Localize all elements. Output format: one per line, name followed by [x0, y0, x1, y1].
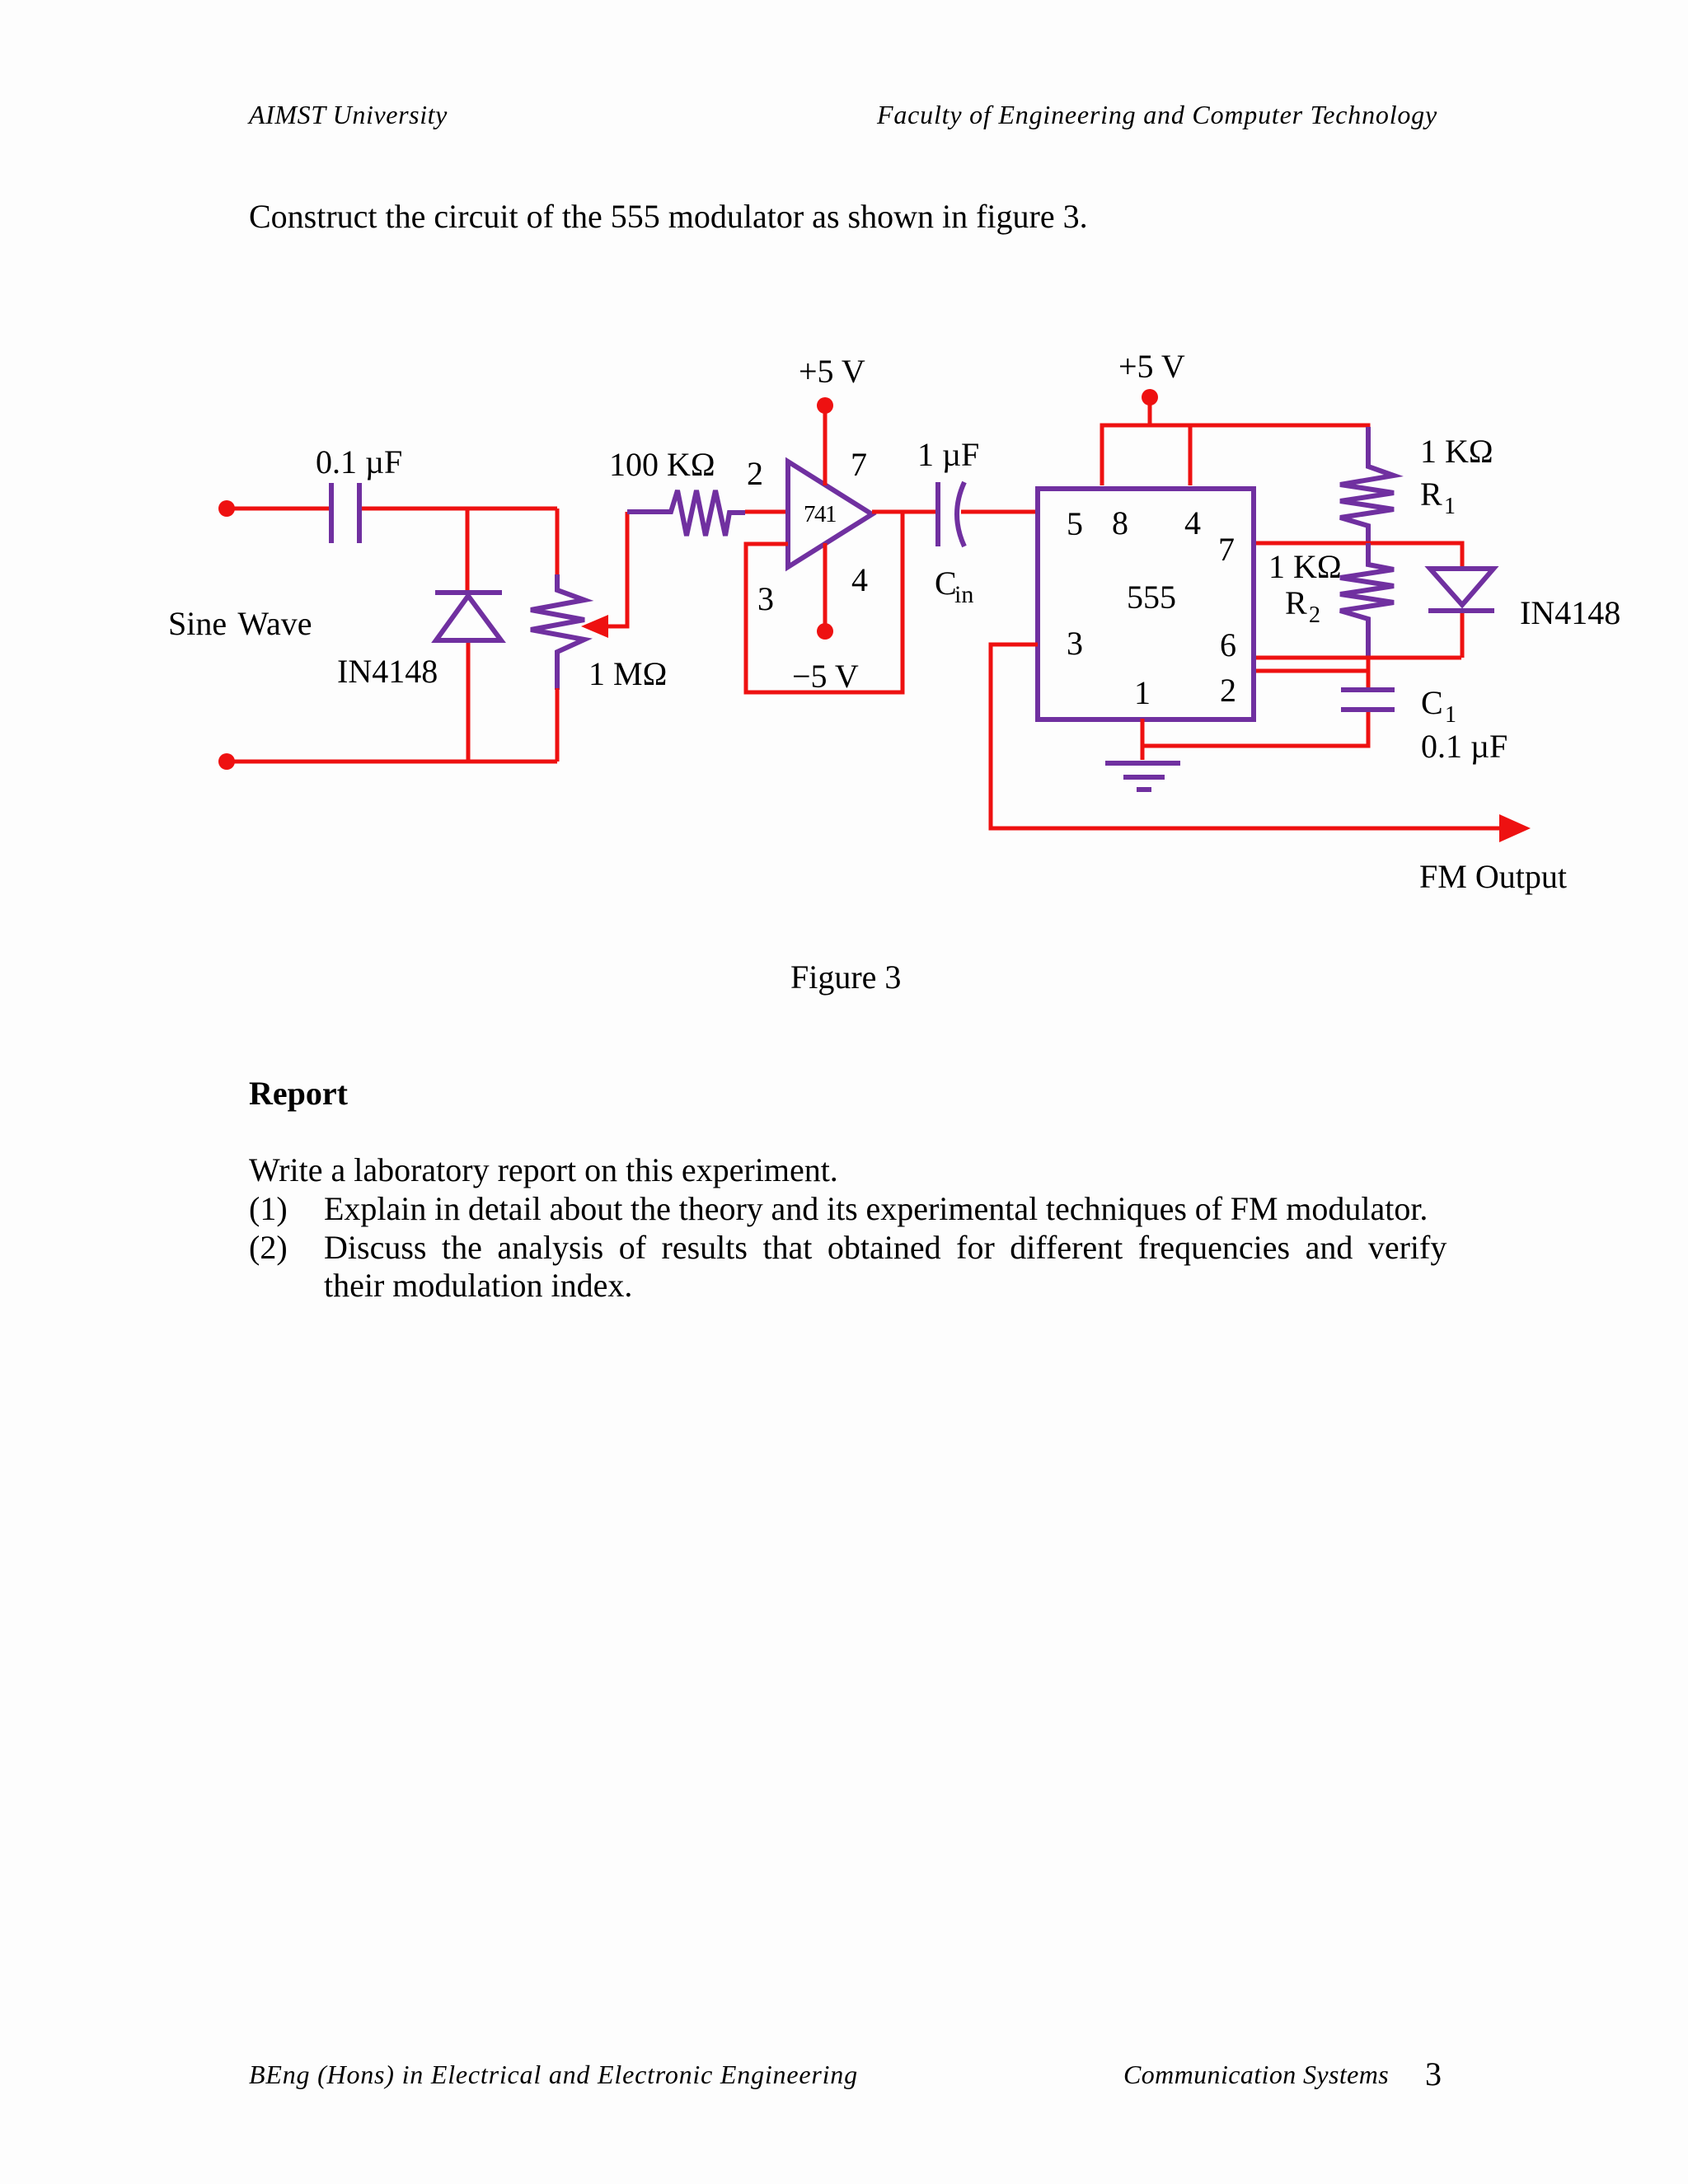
wire: -5V stem (op-amp pin 4)	[823, 543, 828, 631]
node: sine-wave + input terminal	[218, 500, 235, 517]
svg-text:1: 1	[1444, 494, 1456, 519]
svg-text:their modulation index.: their modulation index.	[324, 1267, 632, 1304]
svg-text:Discuss the analysis of result: Discuss the analysis of results that obt…	[324, 1229, 1447, 1266]
svg-text:3: 3	[1425, 2055, 1442, 2093]
svg-text:in: in	[954, 581, 973, 608]
wire: bottom rail	[227, 760, 557, 764]
wire: R3 bottom to rail	[556, 688, 560, 762]
wire: +5V stem (op-amp pin 7)	[823, 405, 828, 485]
svg-text:IN4148: IN4148	[337, 653, 438, 690]
wire: +5V stem 555	[1148, 397, 1152, 425]
ground symbol	[1105, 763, 1180, 790]
svg-text:741: 741	[804, 501, 836, 527]
wire: 555 pin 7 to diode D2	[1256, 543, 1462, 566]
svg-text:100 KΩ: 100 KΩ	[609, 446, 715, 483]
svg-text:5: 5	[1067, 505, 1083, 542]
svg-text:1 KΩ: 1 KΩ	[1268, 548, 1342, 585]
node: +5V supply dot	[817, 397, 833, 414]
svg-text:4: 4	[1184, 504, 1201, 541]
svg-text:C: C	[935, 565, 957, 602]
svg-text:Communication Systems: Communication Systems	[1123, 2060, 1389, 2089]
wire: junction down to C1	[1367, 658, 1371, 687]
wire: junction down to R3 top	[556, 509, 560, 576]
wire: Cin to 555 pin 5	[961, 510, 1038, 514]
resistor 100 Kohm	[627, 490, 745, 536]
FM output arrowhead	[1499, 814, 1531, 842]
wire: feedback loop pin3-output	[746, 512, 903, 692]
svg-text:7: 7	[1218, 531, 1235, 568]
svg-text:0.1 µF: 0.1 µF	[1421, 728, 1507, 765]
node: +5V supply dot (555)	[1142, 389, 1158, 405]
wire: second drop to 555 pin 4	[1189, 425, 1193, 485]
wiper arrow into 1 Mohm	[607, 512, 627, 626]
svg-text:+5 V: +5 V	[1118, 348, 1185, 385]
diode D2 IN4148	[1428, 569, 1494, 611]
resistor R1 1 Kohm	[1340, 427, 1394, 543]
svg-text:3: 3	[1067, 625, 1083, 662]
svg-text:Figure 3: Figure 3	[790, 958, 901, 996]
capacitor 0.1 uF input coupling	[331, 483, 359, 543]
wire: D2 cathode down to pin 6 line	[1461, 613, 1465, 658]
wire: 555 pin 2 line	[1256, 669, 1368, 673]
resistor R2 1 Kohm	[1340, 543, 1394, 658]
svg-text:Faculty of Engineering and Com: Faculty of Engineering and Computer Tech…	[876, 100, 1437, 129]
svg-text:Report: Report	[249, 1075, 349, 1112]
wire: top input lead	[227, 507, 329, 511]
svg-text:+5 V: +5 V	[799, 353, 865, 390]
svg-text:(1): (1)	[249, 1190, 288, 1227]
svg-text:2: 2	[747, 455, 763, 492]
svg-text:1: 1	[1134, 674, 1151, 711]
svg-text:Construct the circuit of the 5: Construct the circuit of the 555 modulat…	[249, 198, 1088, 235]
wire: op-amp output	[872, 510, 936, 514]
wire: 555 pin 6 line	[1256, 656, 1461, 660]
svg-text:FM Output: FM Output	[1419, 858, 1567, 895]
wire: down to diode D1	[466, 509, 470, 591]
svg-text:0.1 µF: 0.1 µF	[316, 443, 402, 480]
wire: D1 anode to bottom rail	[467, 643, 471, 762]
svg-text:IN4148: IN4148	[1520, 594, 1620, 631]
svg-text:Sine Wave: Sine Wave	[168, 605, 312, 642]
capacitor Cin 1 uF	[938, 482, 964, 546]
svg-text:(2): (2)	[249, 1229, 288, 1266]
wire: 555 pin 3 to FM output	[991, 644, 1500, 828]
svg-text:555: 555	[1127, 579, 1176, 616]
node: -5V supply dot	[817, 623, 833, 640]
svg-text:8: 8	[1112, 504, 1128, 541]
svg-text:4: 4	[851, 561, 868, 598]
svg-text:1 KΩ: 1 KΩ	[1420, 433, 1493, 470]
svg-text:R: R	[1420, 476, 1442, 513]
wire: pin 2 into op-amp	[745, 510, 788, 514]
555 timer U2	[1038, 489, 1254, 719]
svg-text:Explain in detail about the th: Explain in detail about the theory and i…	[324, 1190, 1428, 1227]
op-amp U1 741	[788, 462, 872, 567]
svg-text:Write a laboratory report on t: Write a laboratory report on this experi…	[249, 1151, 838, 1188]
svg-text:R: R	[1285, 584, 1307, 621]
svg-text:1 MΩ: 1 MΩ	[588, 655, 667, 692]
capacitor C1 0.1 uF	[1341, 690, 1395, 710]
svg-text:BEng (Hons) in Electrical and: BEng (Hons) in Electrical and Electronic…	[249, 2060, 858, 2089]
svg-text:2: 2	[1220, 672, 1236, 709]
resistor 1 Mohm potentiometer body	[531, 574, 584, 690]
svg-text:1 µF: 1 µF	[917, 436, 979, 473]
node: sine-wave - input terminal	[218, 753, 235, 770]
diode D1 IN4148	[435, 593, 502, 640]
svg-text:1: 1	[1445, 702, 1456, 728]
svg-text:7: 7	[851, 446, 867, 483]
svg-text:AIMST University: AIMST University	[247, 100, 448, 129]
svg-text:2: 2	[1309, 602, 1320, 628]
wire: cap to junction	[362, 507, 557, 511]
wire: C1 bottom to ground line	[1142, 712, 1368, 746]
wire: 555 pin 1 ground stem	[1141, 719, 1145, 760]
svg-text:−5 V: −5 V	[792, 658, 859, 695]
svg-text:C: C	[1421, 684, 1443, 721]
svg-text:3: 3	[757, 580, 774, 617]
wire: +5V top rail	[1102, 425, 1368, 485]
svg-text:6: 6	[1220, 626, 1236, 663]
